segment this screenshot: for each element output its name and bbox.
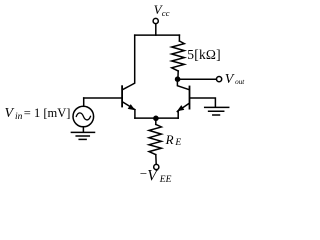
junction dot collector node [175, 76, 181, 82]
svg-text:V: V [147, 167, 158, 184]
svg-text:out: out [235, 78, 245, 86]
wire common emitter rail [135, 117, 178, 119]
svg-text:cc: cc [162, 8, 170, 18]
ground right top bar [205, 106, 229, 108]
wire source top lead [83, 98, 85, 106]
ground left bottom bar [79, 138, 86, 140]
wire Q1 base from source [84, 97, 122, 99]
wire source bottom lead [82, 127, 84, 132]
svg-text:R: R [165, 132, 174, 147]
transistor Q2 base bar [189, 87, 191, 109]
svg-text:in: in [15, 112, 23, 122]
wire node to Vout terminal [179, 78, 216, 80]
ground left middle bar [76, 135, 89, 137]
junction dot emitter node [153, 116, 159, 122]
wire Q1 emitter down [134, 110, 136, 118]
transistor Q1 emitter arrowhead [128, 104, 136, 110]
svg-text:EE: EE [159, 175, 172, 185]
resistor R1 5k zigzag [172, 41, 185, 71]
transistor Q2 emitter arrowhead [177, 105, 184, 111]
wire top rail [135, 34, 180, 36]
label RE [165, 132, 182, 148]
svg-text:5[kΩ]: 5[kΩ] [187, 47, 221, 62]
label -VEE [140, 166, 172, 185]
label Vcc [154, 2, 170, 18]
ground right bottom bar [213, 114, 220, 116]
svg-text:E: E [174, 138, 181, 148]
svg-text:= 1 [mV]: = 1 [mV] [24, 106, 71, 120]
svg-text:V: V [225, 72, 235, 87]
wire Q2 base to ground [190, 98, 215, 107]
transistor Q1 emitter diagonal [123, 102, 135, 110]
wire 5k resistor top lead [178, 35, 180, 41]
svg-text:V: V [5, 106, 15, 121]
terminal circle Vout [217, 77, 222, 82]
svg-text:−: − [140, 166, 147, 181]
wire Q1 collector branch [123, 35, 135, 90]
source V1 sine wave [76, 113, 90, 120]
wire Q2 emitter down [177, 111, 179, 118]
ground left top bar [71, 131, 94, 133]
ground right middle bar [209, 110, 224, 112]
label Vout [225, 72, 246, 87]
label Vin = 1 [mV] [5, 106, 71, 122]
wire Q2 collector to node [177, 82, 189, 90]
source V1 circle [73, 106, 94, 127]
wire Vcc terminal lead [155, 24, 157, 35]
transistor Q2 emitter diagonal [177, 104, 189, 112]
transistor Q1 base bar [121, 86, 123, 106]
wire RE bottom lead [155, 155, 157, 165]
wire 5k resistor bottom lead [177, 71, 179, 77]
wire node to RE top lead [155, 118, 157, 124]
terminal circle Vcc [153, 18, 158, 23]
resistor RE zigzag [149, 124, 161, 154]
terminal circle -VEE [154, 164, 159, 169]
